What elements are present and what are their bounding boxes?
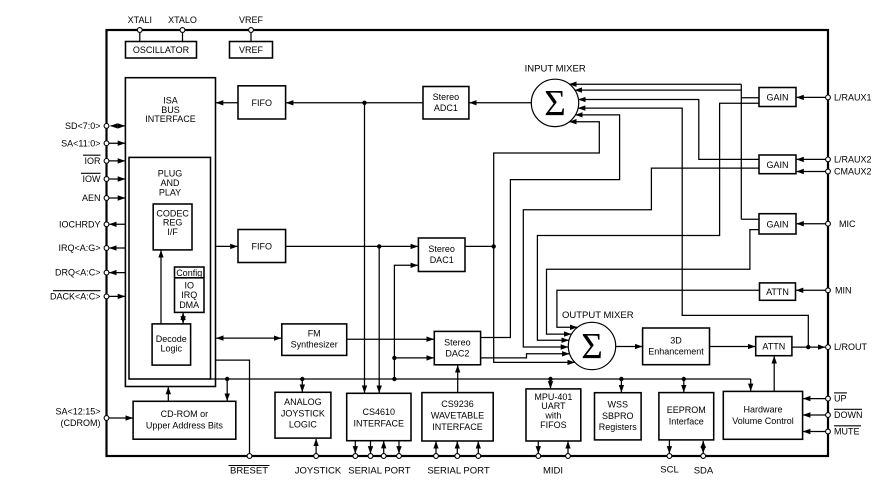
- wire DAC1 output junction: [465, 244, 496, 248]
- svg-text:INTERFACE: INTERFACE: [145, 114, 196, 124]
- wire bus drop to joystick logic: [301, 379, 303, 392]
- block Hardware Volume Control: [723, 391, 802, 439]
- outer chip border: [107, 30, 829, 456]
- svg-text:GAIN: GAIN: [766, 93, 788, 103]
- wire GAIN mic lower to output mixer: [547, 230, 760, 335]
- svg-text:Logic: Logic: [161, 344, 183, 354]
- block MPU-401 UART with FIFOS: [526, 389, 581, 441]
- pin IOCHRDY output: [59, 219, 125, 229]
- junction bus to EEPROM: [682, 377, 686, 381]
- pin L/ROUT output: [792, 342, 868, 352]
- wire bus corner down to Hardware Volume Control: [750, 379, 752, 391]
- svg-text:DAC2: DAC2: [445, 348, 469, 358]
- pin SDA bidirectional: [694, 441, 714, 477]
- svg-text:Enhancement: Enhancement: [648, 347, 704, 357]
- pins serial port 1: [348, 441, 410, 477]
- svg-text:DMA: DMA: [179, 300, 199, 310]
- svg-text:OUTPUT MIXER: OUTPUT MIXER: [562, 310, 634, 321]
- pins MIDI: [536, 442, 571, 477]
- svg-text:UP: UP: [834, 394, 847, 404]
- wire DAC1 to output mixer: [494, 246, 575, 362]
- pin IOR active low: [83, 155, 125, 166]
- svg-text:Synthesizer: Synthesizer: [291, 339, 338, 349]
- wire output mixer to 3D Enhancement: [616, 346, 642, 348]
- wire 3D Enhancement to ATTN: [710, 346, 756, 348]
- wire GAIN mic upper to input mixer: [575, 90, 759, 219]
- wire Decode Logic to CODEC REG: [160, 251, 162, 324]
- svg-text:INPUT MIXER: INPUT MIXER: [525, 64, 586, 75]
- junction bus to WSS: [619, 377, 623, 381]
- svg-text:Config: Config: [176, 268, 202, 278]
- svg-text:WSS: WSS: [608, 400, 629, 410]
- block WSS SBPRO Registers: [595, 393, 642, 440]
- wire bus drop to WSS: [620, 379, 622, 392]
- junction bus to MPU-401: [548, 377, 552, 381]
- wire bus riser to DAC1 lower input: [394, 265, 417, 379]
- svg-text:SERIAL PORT: SERIAL PORT: [427, 466, 489, 477]
- svg-text:L/ROUT: L/ROUT: [834, 342, 868, 352]
- wire CD-ROM to ISA: [167, 387, 169, 401]
- svg-text:DOWN: DOWN: [834, 410, 863, 420]
- wire ADC1 to FIFO1: [286, 102, 423, 104]
- wire CS9236 to DAC2: [457, 365, 459, 392]
- svg-text:IOCHRDY: IOCHRDY: [59, 219, 101, 229]
- block PLUG AND PLAY: [129, 157, 211, 379]
- svg-text:IO: IO: [184, 280, 194, 290]
- pin MIC: [797, 219, 856, 229]
- svg-text:(CDROM): (CDROM): [61, 418, 101, 428]
- svg-text:ADC1: ADC1: [434, 103, 458, 113]
- svg-text:CMAUX2: CMAUX2: [834, 167, 872, 177]
- wire DAC1 to input mixer: [494, 122, 600, 247]
- block Decode Logic: [152, 324, 191, 365]
- svg-text:IRQ: IRQ: [181, 290, 197, 300]
- svg-text:PLAY: PLAY: [159, 187, 181, 197]
- pin L/RAUX1: [797, 93, 872, 103]
- svg-text:CD-ROM or: CD-ROM or: [161, 409, 209, 419]
- pins serial port 2: [427, 442, 489, 477]
- block Stereo DAC2: [434, 331, 480, 364]
- wire Hardware Volume Control to ATTN: [773, 356, 775, 391]
- svg-text:L/RAUX1: L/RAUX1: [834, 93, 872, 103]
- pin UP active low: [803, 393, 847, 404]
- block FIFO bottom: [238, 230, 286, 263]
- svg-text:EEPROM: EEPROM: [667, 405, 706, 415]
- pin MIN: [796, 285, 851, 295]
- svg-text:LOGIC: LOGIC: [289, 420, 318, 430]
- junction bus to joystick logic: [300, 377, 304, 381]
- block Stereo DAC1: [418, 238, 465, 272]
- block GAIN mic: [759, 214, 796, 234]
- svg-text:IOR: IOR: [84, 156, 101, 166]
- pin SCL: [660, 440, 678, 475]
- svg-text:MIN: MIN: [835, 285, 852, 295]
- pin L/RAUX2: [797, 155, 872, 165]
- wire internal bus: [211, 378, 751, 380]
- svg-text:3D: 3D: [670, 336, 682, 346]
- block CD-ROM or Upper Address Bits: [133, 401, 236, 439]
- wire input mixer to ADC1: [470, 102, 532, 104]
- wire DAC2 upper output to input mixer: [481, 115, 620, 338]
- junction bus to DAC1 riser: [392, 377, 396, 381]
- block CODEC REG I/F: [153, 204, 192, 250]
- svg-text:FIFOS: FIFOS: [540, 420, 567, 430]
- wire FIFO2 tap down to CS4610: [378, 246, 380, 392]
- svg-text:AEN: AEN: [82, 193, 101, 203]
- svg-text:Stereo: Stereo: [444, 337, 471, 347]
- block Config IO IRQ DMA: [175, 267, 205, 312]
- pin SD<7:0> bidirectional: [65, 121, 125, 131]
- svg-text:Registers: Registers: [599, 422, 638, 432]
- block EEPROM Interface: [659, 393, 714, 440]
- pin DOWN active low: [803, 409, 862, 420]
- svg-text:OSCILLATOR: OSCILLATOR: [133, 45, 190, 55]
- svg-text:CS4610: CS4610: [363, 407, 396, 417]
- junction bus riser to DAC2: [392, 356, 396, 360]
- svg-text:SD<7:0>: SD<7:0>: [65, 121, 101, 131]
- svg-text:Decode: Decode: [156, 334, 187, 344]
- pin DRQ<A:C> output: [55, 268, 125, 278]
- wire bus riser branch to DAC2 lower input: [394, 357, 433, 359]
- svg-text:Σ: Σ: [544, 84, 566, 125]
- svg-text:VREF: VREF: [239, 15, 264, 25]
- svg-text:SCL: SCL: [660, 465, 678, 476]
- svg-text:MIC: MIC: [839, 219, 856, 229]
- svg-text:JOYSTICK: JOYSTICK: [281, 408, 325, 418]
- junction ADC1 tap: [362, 101, 366, 105]
- svg-text:Stereo: Stereo: [428, 244, 455, 254]
- svg-text:INTERFACE: INTERFACE: [432, 422, 483, 432]
- block FIFO top: [238, 86, 286, 119]
- pin DACK<A:C> active low: [50, 291, 125, 302]
- pin SA<11:0>: [61, 138, 125, 148]
- wire ATTN min to output mixer: [557, 290, 760, 327]
- svg-text:VREF: VREF: [239, 45, 264, 55]
- pin CMAUX2: [797, 167, 872, 177]
- pin JOYSTICK: [295, 439, 342, 477]
- output mixer U2: [562, 310, 634, 370]
- wire FIFO1 to ISA: [216, 102, 238, 104]
- svg-text:SBPRO: SBPRO: [602, 411, 634, 421]
- wire DAC2 lower output to output mixer: [481, 354, 570, 358]
- wire GAIN aux1 upper to input mixer: [569, 84, 759, 219]
- svg-text:DRQ<A:C>: DRQ<A:C>: [55, 268, 101, 278]
- svg-text:JOYSTICK: JOYSTICK: [295, 466, 342, 477]
- wire FIFO2 to DAC1: [286, 245, 418, 247]
- wire bus drop to EEPROM: [683, 379, 685, 392]
- svg-text:L/RAUX2: L/RAUX2: [834, 155, 872, 165]
- svg-text:CS9236: CS9236: [441, 399, 474, 409]
- pin SA<12:15> CDROM: [55, 407, 132, 429]
- wire ISA to FM Synthesizer bidirectional: [216, 337, 281, 339]
- svg-text:ANALOG: ANALOG: [284, 397, 322, 407]
- svg-text:MIDI: MIDI: [543, 466, 563, 477]
- block ISA BUS INTERFACE: [125, 78, 215, 387]
- svg-text:SA<12:15>: SA<12:15>: [55, 407, 100, 417]
- wire ISA to FIFO2: [216, 245, 238, 247]
- pin AEN: [82, 193, 125, 203]
- pin XTALI: [128, 15, 152, 42]
- svg-text:Interface: Interface: [669, 416, 704, 426]
- block Stereo ADC1: [423, 87, 469, 120]
- svg-text:IOW: IOW: [83, 174, 102, 184]
- svg-text:GAIN: GAIN: [766, 219, 788, 229]
- wire GAIN aux1 lower to output mixer: [537, 103, 759, 340]
- pin XTALO: [168, 15, 197, 42]
- svg-text:Volume Control: Volume Control: [732, 416, 794, 426]
- pin IOW active low: [81, 173, 125, 184]
- block VREF: [230, 42, 273, 59]
- wire BRESET to ISA: [216, 360, 250, 454]
- svg-text:MUTE: MUTE: [834, 427, 860, 437]
- svg-text:ATTN: ATTN: [766, 287, 789, 297]
- block GAIN aux2: [759, 155, 796, 174]
- svg-text:ATTN: ATTN: [762, 342, 785, 352]
- svg-text:Σ: Σ: [581, 327, 603, 368]
- junction bus to CD-ROM: [225, 377, 229, 381]
- wire ADC1 tap down to CS4610: [364, 103, 366, 393]
- wire loopback from L/ROUT to input mixer: [578, 108, 808, 347]
- svg-text:Upper Address Bits: Upper Address Bits: [146, 421, 224, 431]
- wire Config to Decode Logic bidirectional: [182, 313, 184, 324]
- svg-text:SDA: SDA: [694, 466, 714, 477]
- wire GAIN aux2 lower to output mixer: [523, 168, 759, 347]
- pin MUTE active low: [803, 426, 861, 437]
- svg-text:IRQ<A:G>: IRQ<A:G>: [58, 243, 100, 253]
- block CS9236 WAVETABLE INTERFACE: [422, 393, 493, 441]
- svg-text:BRESET: BRESET: [230, 466, 268, 477]
- junction FIFO2 tap: [377, 244, 381, 248]
- svg-text:GAIN: GAIN: [766, 160, 788, 170]
- block CS4610 INTERFACE: [347, 393, 411, 440]
- wire FM Synthesizer to DAC2: [347, 338, 434, 340]
- wire GAIN aux2 upper to input mixer: [578, 100, 759, 160]
- block 3D Enhancement: [643, 328, 710, 365]
- block ATTN min: [760, 283, 796, 300]
- block ATTN lrout: [756, 337, 792, 356]
- block FM Synthesizer: [282, 324, 347, 356]
- svg-text:DACK<A:C>: DACK<A:C>: [50, 292, 101, 302]
- svg-text:Stereo: Stereo: [433, 92, 460, 102]
- svg-text:XTALO: XTALO: [168, 15, 197, 25]
- pin IRQ<A:G> output: [58, 243, 125, 253]
- svg-text:Hardware: Hardware: [743, 405, 782, 415]
- svg-text:I/F: I/F: [167, 227, 178, 237]
- svg-text:SERIAL PORT: SERIAL PORT: [348, 466, 410, 477]
- input mixer U1: [525, 64, 586, 127]
- svg-text:FIFO: FIFO: [252, 242, 273, 252]
- svg-text:FM: FM: [308, 328, 321, 338]
- block ANALOG JOYSTICK LOGIC: [275, 392, 331, 438]
- block OSCILLATOR: [126, 42, 197, 59]
- wire bus drop to CD-ROM: [226, 379, 228, 401]
- svg-text:INTERFACE: INTERFACE: [354, 418, 405, 428]
- svg-text:SA<11:0>: SA<11:0>: [61, 138, 100, 148]
- svg-text:DAC1: DAC1: [430, 255, 454, 265]
- block GAIN aux1: [759, 88, 796, 107]
- pin VREF: [239, 15, 264, 42]
- svg-text:XTALI: XTALI: [128, 15, 152, 25]
- pin BRESET active low: [229, 454, 270, 477]
- svg-text:WAVETABLE: WAVETABLE: [431, 410, 484, 420]
- wire bus drop to MPU-401: [550, 379, 552, 388]
- svg-text:FIFO: FIFO: [252, 98, 273, 108]
